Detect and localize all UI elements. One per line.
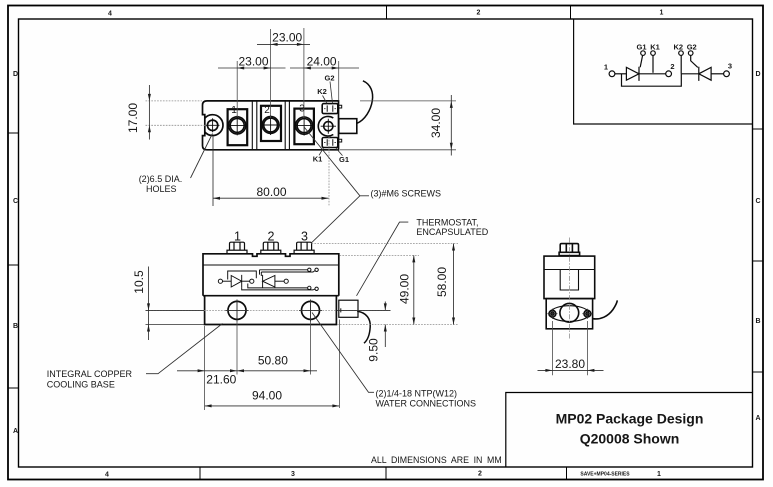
arrows 58.00 [452,244,455,251]
wire SCR2 to right node [275,280,284,282]
wire K1 to cathode node [652,55,654,72]
wire SCR2 anode to node 3 [711,73,724,75]
aux cathode K2 terminal [679,51,684,56]
terminal 3 screw circles [296,117,313,134]
svg-text:1: 1 [604,63,608,72]
svg-text:HOLES: HOLES [146,184,177,194]
svg-text:MP02 Package Design: MP02 Package Design [556,411,704,427]
water port end circle [560,303,579,322]
arrows 80.00 [213,197,220,200]
extension base bottom right [337,324,458,326]
svg-text:2: 2 [264,105,270,116]
arrows 49.00 [412,255,415,262]
terminal 1 pad [228,109,248,145]
leader M6 screws to front stud 3 [312,196,360,243]
svg-text:1: 1 [234,230,241,244]
svg-text:34.00: 34.00 [429,108,443,138]
terminal 2 pad [261,106,281,141]
extension line body right edge [338,61,340,101]
title block [506,393,753,468]
dim line 10.5 [148,267,150,341]
svg-text:10.5: 10.5 [132,270,146,294]
leader water connections [312,313,374,393]
svg-text:Q20008 Shown: Q20008 Shown [580,431,680,447]
internal thyristor SCR1 [231,275,242,288]
node 3 terminal [724,71,730,77]
gate trace bottom pair [242,284,315,290]
extension line terminal2 center [270,29,272,118]
gate trace top pair [260,270,316,276]
dim line 23.00 / 24.00 second row [218,67,359,69]
svg-text:80.00: 80.00 [256,185,286,199]
extension line body top left [146,100,203,102]
svg-text:B: B [13,323,18,330]
svg-text:1: 1 [231,105,237,116]
extension stud top right [312,243,459,245]
svg-text:G1: G1 [636,43,646,52]
right pigtail node [284,279,288,283]
cooling base outline [205,296,337,325]
side stud hex [560,244,578,253]
arrows 50.80 [237,369,244,372]
svg-text:SAVE+MP04-SERIES: SAVE+MP04-SERIES [580,472,630,478]
right mounting hole [324,122,333,131]
thermostat wire front [357,311,370,343]
left keyhole slot arc [205,115,223,136]
wire G2 to SCR2 gate [691,55,698,67]
dim line 58.00 [453,244,455,325]
side stud washer [559,252,580,255]
svg-text:2: 2 [477,10,481,17]
crosshair water hole 2 [299,300,322,322]
dim line 94.00 [205,405,340,407]
dim line 80.00 [213,197,329,199]
gate G1 terminal [641,51,646,56]
extension centerline left [146,309,205,311]
extension centerline right solid [337,309,391,311]
trace outline box over SCR1 [228,271,257,280]
svg-text:(3)#M6 SCREWS: (3)#M6 SCREWS [371,188,442,198]
water connection hole 2 [302,301,320,319]
thermostat wire loop top view [357,81,373,124]
svg-text:23.00: 23.00 [238,54,268,68]
arrows 24.00 [304,67,311,70]
wire node1 to SCR1 anode [615,73,627,75]
svg-text:G1: G1 [339,155,349,164]
stud terminal 3 [297,242,312,250]
wire SCR1 cathode to node 2 [639,73,666,75]
svg-text:50.80: 50.80 [258,354,288,368]
leader G1 [336,148,343,155]
arrows 10.5 [147,303,150,310]
svg-text:1: 1 [657,471,661,478]
arrows 17.00 [148,94,151,101]
thermostat tab top view [339,119,357,134]
extension line 34 bottom [340,149,456,151]
leader K1 [319,148,324,155]
svg-text:(2)1/4-18 NTP(W12): (2)1/4-18 NTP(W12) [376,389,458,399]
extension circle1 vertical [236,300,238,375]
arrows 23.80 [545,369,552,372]
node 2 terminal [666,71,672,77]
clamp plate lens outline [550,306,589,322]
side base outline [546,299,592,329]
svg-text:A: A [756,415,761,422]
svg-text:K2: K2 [674,43,684,52]
stud terminal 2 [263,242,278,250]
crosshair screw right [582,309,592,319]
centerline side vertical [569,238,571,339]
side body upper line [544,269,595,271]
svg-text:C: C [756,198,761,205]
svg-text:17.00: 17.00 [126,103,140,133]
svg-text:21.60: 21.60 [206,373,236,387]
arrows 23.00 top [271,43,278,46]
extension screw left vertical [551,321,553,375]
svg-text:3: 3 [299,104,305,115]
extension line 80 right [328,137,330,206]
crosshair screw left [547,309,557,319]
left mounting hole [207,120,217,130]
svg-text:49.00: 49.00 [397,274,411,304]
terminal 2 screw circles [262,117,279,134]
extension base right vertical [338,320,340,409]
side screw right [584,310,591,317]
wire bottom loop node1 to SCR2 cathode [622,74,682,86]
terminal 3 pad [294,109,314,145]
leader G2 [330,82,333,104]
top view body outline [203,101,339,150]
dim line 23.80 [538,369,604,371]
lid line [203,264,339,266]
side screw left [549,310,556,317]
dim line 17.00 [148,85,150,140]
extension base left vertical [204,326,206,410]
svg-text:INTEGRAL COPPER: INTEGRAL COPPER [47,369,133,379]
svg-text:D: D [13,71,18,78]
thermostat tab front [339,300,358,317]
arrows 23.00 second [237,67,244,70]
svg-text:23.00: 23.00 [272,31,302,45]
internal thyristor SCR2 [263,275,275,288]
svg-text:58.00: 58.00 [435,267,449,297]
arrows 34.00 [450,101,453,108]
crosshair water hole 1 [226,300,249,322]
svg-text:B: B [756,318,761,325]
svg-text:WATER CONNECTIONS: WATER CONNECTIONS [376,399,477,409]
dim line 23.00 top [257,43,310,45]
gate terminal block K2/G2 top right [322,104,338,114]
arrows 21.60 [198,369,205,372]
arrows 94.00 [205,404,212,407]
right keyhole arc [318,116,333,136]
leader integral copper [146,324,223,374]
water connection hole 1 [228,301,246,319]
svg-text:94.00: 94.00 [252,389,282,403]
svg-text:(2)6.5 DIA.: (2)6.5 DIA. [139,174,183,184]
dim line 49.00 [413,255,415,324]
extension line 34 top [360,100,456,102]
wire G1 to SCR1 gate [640,55,642,67]
svg-text:2: 2 [268,230,275,244]
leader thermostat [357,222,409,296]
wire node to SCR2 cathode [681,73,699,75]
leader 6.5 dia holes [191,134,213,179]
svg-text:2: 2 [478,471,482,478]
dim line 34.00 [450,95,452,156]
svg-text:C: C [13,198,18,205]
svg-text:ALL DIMENSIONS ARE IN MM: ALL DIMENSIONS ARE IN MM [371,455,502,465]
svg-text:1: 1 [660,10,664,17]
leader K2 [323,96,328,104]
svg-text:24.00: 24.00 [307,54,337,68]
front body outline with notches [203,254,339,296]
extension line terminal1 center [236,61,238,117]
extension circle2 vertical [310,300,312,375]
extension line 80 left [212,136,214,206]
centerline water holes [146,309,391,311]
extension line terminal3 center [303,28,305,118]
mid pigtail node [250,279,254,283]
gate terminal block K1/G1 bottom right [322,138,338,148]
stud terminal 1 [230,242,245,250]
svg-text:23.80: 23.80 [555,357,585,371]
schematic enclosure box [574,19,753,124]
extension body top right [340,254,420,256]
svg-text:A: A [13,428,18,435]
leader M6 screws to terminal 3 [305,128,360,196]
thyristor SCR1 [626,67,639,81]
arrows 9.50 [384,303,387,310]
svg-text:4: 4 [108,11,112,18]
internal circuit: left pigtail node [218,279,222,283]
leader tick M6 [360,195,369,197]
thermostat wire side [593,300,618,319]
svg-text:K2: K2 [317,87,327,96]
side body outline [544,256,595,299]
dim line 9.50 [384,302,386,348]
svg-text:3: 3 [301,230,308,244]
svg-text:COOLING BASE: COOLING BASE [47,380,115,390]
svg-text:K1: K1 [313,155,323,164]
extension line hole centerline left [146,124,206,126]
side center slot [560,270,578,291]
section divider lines [252,101,289,150]
svg-text:9.50: 9.50 [367,338,381,362]
svg-text:G2: G2 [687,43,697,52]
body bottom line [203,295,339,297]
svg-text:3: 3 [291,471,295,478]
dim line 50.80 21.60 [177,370,317,372]
thyristor SCR2 [699,67,711,81]
svg-text:4: 4 [105,472,109,479]
wire SCR1 to mid node [242,280,250,282]
aux cathode K1 terminal [651,51,656,56]
node 1 terminal [609,71,615,77]
wire K2 down to cathode node [680,55,682,73]
wire to SCR1 [223,280,232,282]
svg-text:G2: G2 [324,74,334,83]
extension base bottom left [146,324,205,326]
svg-text:3: 3 [728,62,732,71]
svg-text:2: 2 [670,62,674,71]
extension screw right vertical [586,321,588,375]
svg-text:K1: K1 [650,43,660,52]
terminal 1 screw circles [229,117,246,134]
svg-text:ENCAPSULATED: ENCAPSULATED [416,227,488,237]
svg-text:THERMOSTAT,: THERMOSTAT, [416,217,478,227]
gate G2 terminal [688,51,693,56]
svg-text:D: D [756,71,761,78]
